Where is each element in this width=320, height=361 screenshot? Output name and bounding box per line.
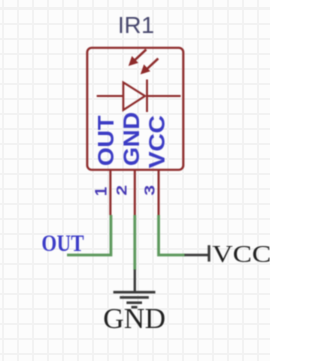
svg-text:1: 1 <box>92 187 110 196</box>
svg-text:VCC: VCC <box>212 241 270 268</box>
wire net GND <box>133 215 136 270</box>
pin 3 stub <box>158 170 160 215</box>
diode of IR1 <box>97 80 181 113</box>
wire net VCC <box>159 215 185 255</box>
pin 1 stub <box>109 170 111 215</box>
svg-text:GND: GND <box>103 304 166 335</box>
svg-text:2: 2 <box>114 185 131 196</box>
svg-text:IR1: IR1 <box>118 12 155 38</box>
IR receiver IR1 body <box>87 48 183 170</box>
ground symbol <box>113 270 155 308</box>
VCC supply symbol <box>185 245 210 261</box>
IR light arrow 2 <box>140 59 158 75</box>
svg-text:3: 3 <box>142 185 159 196</box>
svg-text:VCC: VCC <box>144 115 169 168</box>
pin 2 stub <box>134 170 136 215</box>
IR light arrow 1 <box>128 50 146 67</box>
wire net OUT <box>67 215 111 255</box>
svg-text:OUT: OUT <box>94 115 119 166</box>
svg-text:GND: GND <box>119 112 144 166</box>
svg-text:OUT: OUT <box>42 231 85 256</box>
